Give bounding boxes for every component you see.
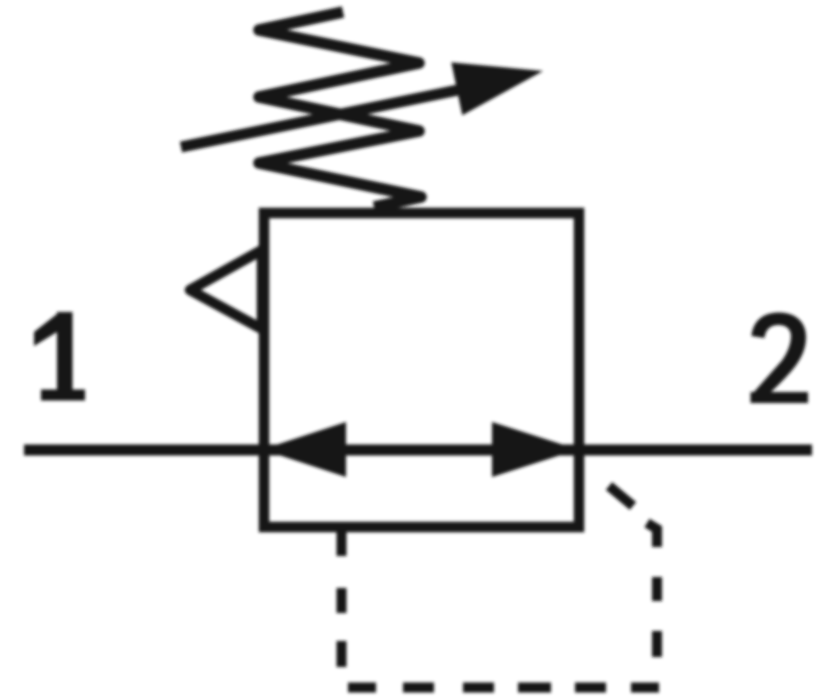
pilot sense line: left vertical dashed segment to box bottom bbox=[337, 530, 347, 667]
valve body box bbox=[264, 213, 579, 527]
port label 1 bbox=[34, 312, 85, 401]
adjustment arrow shaft bbox=[181, 86, 480, 148]
spring (pressure adjustment spring) bbox=[259, 12, 421, 207]
port label 2 bbox=[751, 313, 809, 404]
adjustment arrowhead bbox=[451, 62, 543, 115]
main flow line port 1 to port 2 bbox=[24, 445, 812, 456]
pilot triangle (left) bbox=[190, 250, 262, 329]
pilot sense line: right vertical dashed segment bbox=[647, 523, 657, 657]
pilot sense line: bottom horizontal dashed segment bbox=[348, 683, 659, 693]
left flow arrowhead bbox=[262, 422, 346, 477]
pilot sense line: diagonal dash near port 2 bbox=[609, 486, 633, 506]
right flow arrowhead bbox=[492, 422, 578, 477]
